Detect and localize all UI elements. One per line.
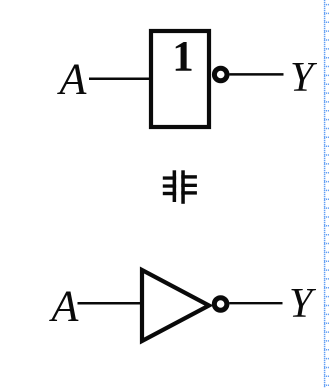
inversion bubble (top gate output) bbox=[214, 68, 227, 81]
wire (top gate input) bbox=[89, 78, 153, 81]
inversion bubble (bottom gate output) bbox=[214, 298, 227, 311]
svg-text:Y: Y bbox=[289, 281, 317, 327]
wire (bottom gate input) bbox=[78, 302, 143, 305]
svg-text:1: 1 bbox=[172, 34, 194, 81]
inverter U1 IEC rectangle symbol bbox=[151, 31, 209, 127]
svg-text:A: A bbox=[49, 282, 80, 331]
inverter U2 triangle symbol (ANSI) bbox=[142, 270, 209, 341]
caption 非 (Chinese character NOT, drawn strokes) bbox=[163, 170, 197, 204]
wire (bottom gate output) bbox=[229, 302, 282, 304]
wire (top gate output) bbox=[229, 73, 283, 76]
svg-text:Y: Y bbox=[290, 55, 318, 101]
svg-text:A: A bbox=[57, 55, 88, 104]
